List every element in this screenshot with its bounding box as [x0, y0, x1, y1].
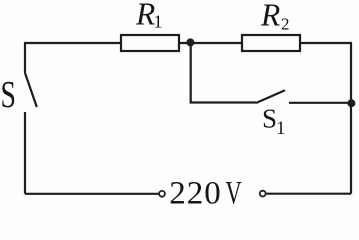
- resistor R2: [242, 35, 300, 51]
- svg-text:2: 2: [281, 15, 290, 34]
- svg-text:220: 220: [169, 176, 222, 208]
- switch S1 blade: [256, 90, 285, 103]
- wire: bottom right segment: [266, 193, 351, 195]
- svg-text:S: S: [262, 104, 277, 134]
- wire: switch S1 right contact to node B: [289, 102, 351, 104]
- svg-text:R: R: [260, 0, 280, 32]
- right supply terminal: [260, 191, 266, 197]
- wire: R2 to top-right corner and down right side: [300, 43, 351, 194]
- svg-text:V: V: [226, 175, 243, 207]
- wire: left side lower segment up to switch S: [24, 112, 26, 194]
- wire: bottom left segment: [25, 193, 158, 195]
- wire: R1 to R2: [179, 42, 242, 44]
- svg-text:S: S: [1, 74, 16, 116]
- svg-text:1: 1: [154, 12, 163, 32]
- wire: middle branch from node A down and right to switch S1: [191, 43, 256, 103]
- left supply terminal: [159, 191, 165, 197]
- resistor R1: [121, 35, 179, 51]
- wire: top-left from switch S up and right to R1: [25, 43, 121, 73]
- svg-text:R: R: [135, 0, 155, 31]
- node A (junction dot after R1): [186, 38, 194, 46]
- node B (junction dot on right wire): [347, 99, 355, 107]
- switch S blade: [25, 73, 37, 107]
- svg-text:1: 1: [276, 118, 286, 139]
